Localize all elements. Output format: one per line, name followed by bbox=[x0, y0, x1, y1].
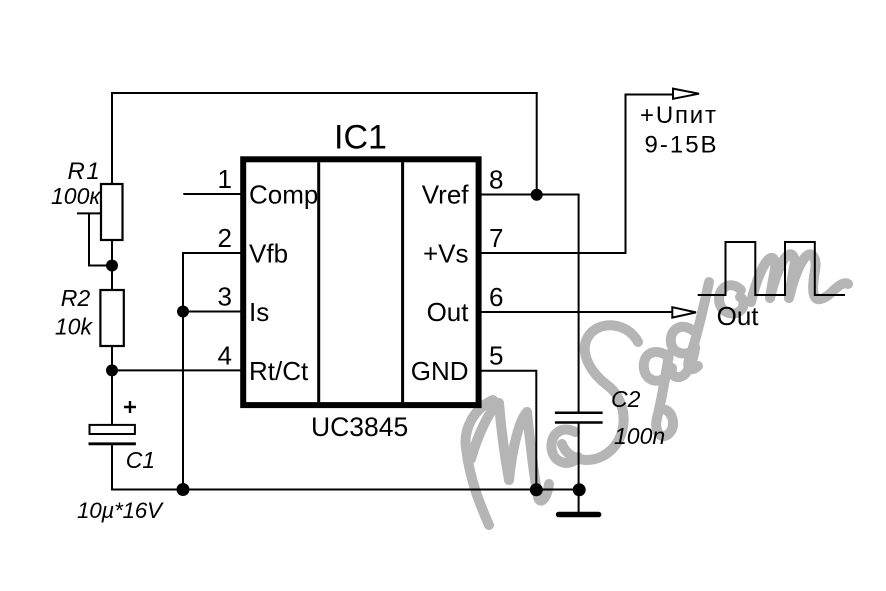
wire: R1 top vertical bbox=[111, 92, 113, 184]
wire: pin4 horizontal bbox=[112, 369, 243, 371]
wire: R1 bottom to R2 top bbox=[111, 240, 113, 290]
svg-text:Vfb: Vfb bbox=[249, 239, 288, 269]
node: R2 bottom junction bbox=[106, 364, 118, 376]
wire: pin 8 stub bbox=[478, 194, 580, 196]
svg-text:+Vs: +Vs bbox=[423, 239, 469, 269]
node: vertical to bottom rail bbox=[177, 483, 190, 496]
svg-text:3: 3 bbox=[218, 282, 232, 312]
wire: pin 7 stub to supply riser bbox=[478, 95, 673, 254]
wire: R2 bottom to node bbox=[111, 346, 113, 371]
wire: pin 5 to bottom rail bbox=[478, 371, 536, 490]
wire: bottom rail bbox=[111, 489, 579, 491]
wire: pin 3 stub bbox=[183, 311, 243, 313]
svg-text:Rt/Ct: Rt/Ct bbox=[249, 356, 309, 386]
capacitor C1 bbox=[90, 425, 135, 434]
node: R1/R2 junction bbox=[106, 260, 118, 272]
svg-text:10k: 10k bbox=[55, 314, 94, 340]
wire: pin 6 output bbox=[478, 311, 672, 313]
svg-text:2: 2 bbox=[218, 223, 232, 253]
svg-text:100к: 100к bbox=[51, 183, 101, 209]
wire: pins 2/3 vertical bbox=[182, 253, 184, 490]
wire: node to C1 top bbox=[111, 370, 113, 424]
supply arrow bbox=[673, 89, 699, 99]
node: C2 bottom rail junction bbox=[573, 483, 586, 496]
capacitor C1 plus sign bbox=[124, 401, 136, 413]
svg-text:GND: GND bbox=[411, 356, 469, 386]
svg-text:Vref: Vref bbox=[422, 180, 469, 210]
svg-text:Comp: Comp bbox=[249, 180, 318, 210]
node: pin 5 bottom rail junction bbox=[530, 483, 543, 496]
svg-text:7: 7 bbox=[489, 223, 503, 253]
svg-text:5: 5 bbox=[489, 341, 503, 371]
wire: pin 1 stub bbox=[183, 193, 243, 195]
R1 tap wire bbox=[77, 213, 112, 265]
svg-text:C1: C1 bbox=[126, 447, 155, 473]
svg-text:100n: 100n bbox=[614, 423, 665, 449]
op-amp IC1 box bbox=[243, 159, 478, 405]
svg-text:R2: R2 bbox=[61, 285, 91, 311]
capacitor C2 top wire bbox=[578, 195, 580, 413]
svg-text:Out: Out bbox=[427, 297, 470, 327]
svg-text:1: 1 bbox=[218, 164, 232, 194]
svg-text:+Uпит: +Uпит bbox=[640, 102, 718, 129]
wire: C1 bottom down bbox=[111, 444, 113, 491]
svg-text:Is: Is bbox=[249, 297, 269, 327]
svg-text:8: 8 bbox=[489, 165, 503, 195]
capacitor C2 bbox=[555, 412, 603, 415]
wire: pin 2 stub bbox=[182, 252, 243, 254]
svg-text:R1: R1 bbox=[68, 158, 102, 185]
watermark McSystem bbox=[466, 254, 848, 525]
svg-text:IC1: IC1 bbox=[334, 119, 387, 157]
node: pin3 junction bbox=[177, 306, 189, 318]
svg-text:Out: Out bbox=[717, 301, 760, 331]
capacitor C2 bottom wire bbox=[578, 423, 580, 514]
svg-text:9-15В: 9-15В bbox=[645, 132, 719, 159]
svg-text:6: 6 bbox=[489, 282, 503, 312]
node: pin 8 junction bbox=[531, 189, 543, 201]
svg-text:C2: C2 bbox=[611, 386, 641, 412]
waveform bbox=[698, 242, 845, 295]
svg-text:UC3845: UC3845 bbox=[311, 412, 408, 442]
resistor R2 bbox=[100, 290, 123, 346]
svg-text:4: 4 bbox=[218, 340, 232, 370]
wire: top horizontal from R1 top to pin8 drop bbox=[111, 92, 538, 94]
wire: vertical drop to pin 8 bbox=[536, 92, 538, 195]
resistor R1 bbox=[101, 184, 123, 240]
output arrow bbox=[672, 307, 696, 317]
ground bbox=[559, 512, 599, 518]
svg-text:10µ*16V: 10µ*16V bbox=[77, 498, 164, 523]
